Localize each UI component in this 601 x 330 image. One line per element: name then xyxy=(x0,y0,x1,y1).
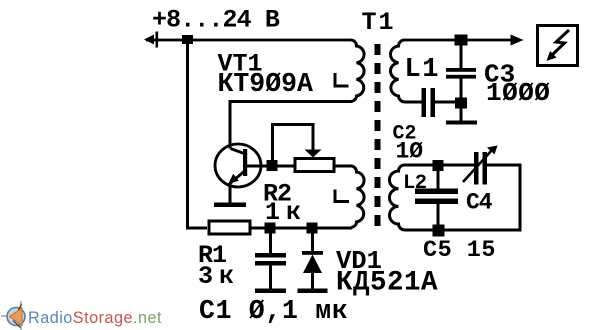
svg-text:RadioStorage.net: RadioStorage.net xyxy=(28,309,162,327)
node E: C3 top junction xyxy=(455,35,468,46)
svg-text:КД521А: КД521А xyxy=(336,268,438,299)
svg-text:1Ø: 1Ø xyxy=(396,139,424,165)
wire: C2 to node F xyxy=(435,101,456,104)
ground (C3) xyxy=(446,121,477,125)
transistor VT1 collector stroke xyxy=(231,149,245,154)
wire: L2 top to C4 xyxy=(404,164,474,167)
node D: VD1 junction xyxy=(307,223,318,234)
supply input arrow xyxy=(144,32,158,48)
transformer T1 secondary L1 xyxy=(390,40,405,102)
wire: winding1 bottom to VT1 collector xyxy=(230,102,352,149)
svg-text:T1: T1 xyxy=(362,8,396,37)
wire: left vertical from supply down to R1 xyxy=(188,41,208,228)
wire: L1 bottom to C2 xyxy=(404,101,422,104)
wire: bottom rail R1 to winding2 xyxy=(252,227,353,230)
node F: C3/C2 junction xyxy=(455,98,467,109)
variable capacitor C4 xyxy=(463,146,498,185)
svg-text:L1: L1 xyxy=(405,55,440,85)
output arrow xyxy=(511,35,524,46)
node B: base junction xyxy=(267,160,278,171)
wire: C4 to tank right side and bottom xyxy=(404,165,520,230)
diode VD1 xyxy=(302,233,323,289)
transistor VT1 base bar xyxy=(243,149,247,176)
node A: supply junction xyxy=(182,35,193,44)
wire: base lead xyxy=(247,165,294,168)
transformer T1 secondary L2 xyxy=(389,165,405,230)
svg-text:+8...24 В: +8...24 В xyxy=(152,6,280,35)
svg-text:C4: C4 xyxy=(466,190,493,216)
potentiometer R2 wiper arrow xyxy=(305,150,322,158)
svg-text:L2: L2 xyxy=(403,172,427,195)
capacitor C5 xyxy=(415,170,458,225)
transformer T1 primary winding 1 xyxy=(351,40,364,102)
RadioStorage.net logo xyxy=(1,301,162,330)
antenna output box xyxy=(538,26,578,66)
svg-text:3 к: 3 к xyxy=(198,262,234,291)
wire: R2 to winding2 xyxy=(336,165,353,168)
ground (VD1) xyxy=(298,289,328,294)
node H: L2 bottom junction xyxy=(433,225,445,237)
wire: emitter to ground xyxy=(229,183,232,204)
winding label L (lower primary) xyxy=(335,190,349,202)
svg-text:КТ9Ø9А: КТ9Ø9А xyxy=(218,69,314,99)
transformer T1 primary winding 2 xyxy=(351,166,364,228)
transformer T1 core xyxy=(375,44,381,234)
capacitor C1 xyxy=(255,233,286,289)
resistor R1 body xyxy=(209,221,250,234)
svg-text:C1 Ø,1 мк: C1 Ø,1 мк xyxy=(199,296,348,326)
wire: L1 top to output arrow xyxy=(404,39,512,42)
transistor VT1 emitter arrow xyxy=(229,174,239,184)
lightning arrow icon xyxy=(547,30,570,61)
node G: L2 top junction xyxy=(433,160,444,171)
wire: feedback loop to R2 wiper xyxy=(273,125,314,163)
wire: +V rail xyxy=(146,39,352,42)
capacitor C3 xyxy=(446,45,476,121)
transistor VT1 circle xyxy=(215,144,261,187)
svg-text:C5 15: C5 15 xyxy=(423,237,496,264)
winding label L (upper primary) xyxy=(335,73,349,86)
capacitor C2 xyxy=(422,88,436,117)
potentiometer R2 body xyxy=(295,159,334,172)
transistor VT1 emitter stroke xyxy=(231,172,245,184)
ground (C1) xyxy=(255,289,286,294)
svg-text:1ØØØ: 1ØØØ xyxy=(486,78,550,108)
ground (emitter) xyxy=(214,203,246,208)
node C: R1/C1 junction xyxy=(265,223,276,234)
